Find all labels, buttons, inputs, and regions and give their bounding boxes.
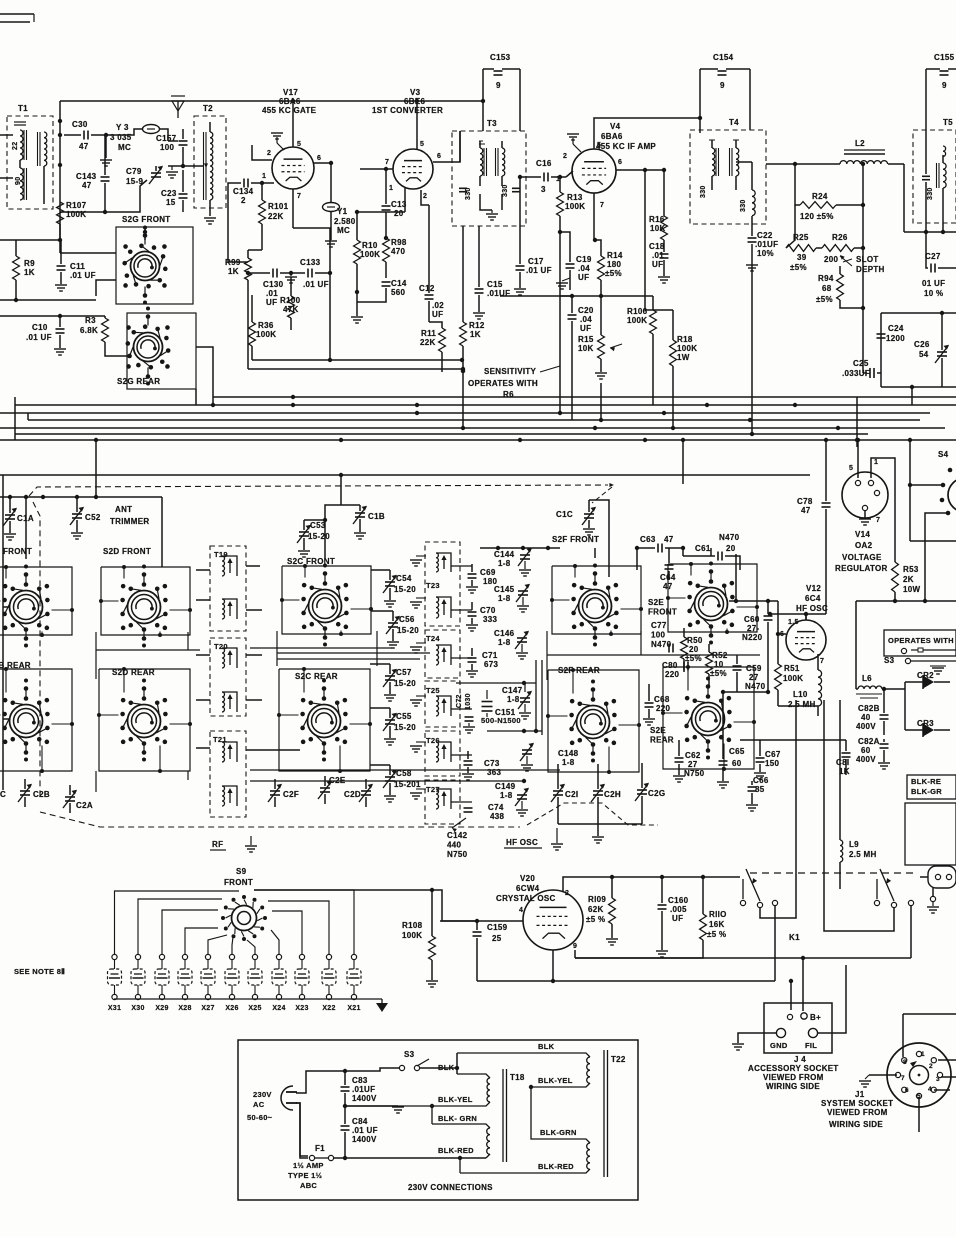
wire — [3, 606, 9, 608]
wire — [357, 288, 386, 302]
pin 6 — [618, 159, 622, 166]
wire — [356, 264, 358, 292]
label BLK-GRN T18 — [438, 1114, 477, 1123]
wire — [881, 313, 956, 387]
svg-text:7: 7 — [901, 1075, 905, 1082]
label C2C fragment — [0, 790, 6, 799]
wire — [774, 906, 776, 981]
wire — [304, 519, 325, 521]
wire — [471, 664, 473, 670]
wire — [843, 259, 852, 262]
capacitor C65 — [719, 747, 745, 768]
transformer T5 winding — [927, 146, 946, 200]
wire — [60, 272, 62, 284]
rotary switch S2D REAR wiring — [99, 669, 190, 771]
wire — [911, 387, 913, 405]
transformer T21 — [210, 731, 246, 817]
wire — [160, 129, 168, 141]
wire junction — [328, 358, 332, 362]
ground — [673, 776, 685, 782]
svg-text:15: 15 — [166, 198, 176, 207]
svg-text:ACCESSORY SOCKET: ACCESSORY SOCKET — [748, 1064, 839, 1073]
svg-text:R101: R101 — [268, 202, 289, 211]
wire — [500, 295, 601, 297]
rotary switch S2E REAR wiring — [663, 667, 754, 769]
svg-text:1200: 1200 — [886, 334, 905, 343]
ground — [298, 551, 310, 557]
wire — [0, 299, 96, 301]
wire — [483, 68, 494, 70]
wire junction — [430, 888, 434, 892]
svg-text:R53: R53 — [903, 565, 919, 574]
wire — [722, 691, 768, 693]
ground — [166, 166, 178, 178]
wire — [290, 318, 292, 330]
ground — [351, 317, 363, 323]
pin 5 — [297, 141, 301, 148]
wire — [883, 750, 885, 762]
switch S3 (power) — [399, 1050, 429, 1071]
wire — [710, 548, 712, 556]
wire junction — [776, 632, 780, 636]
svg-text:.005: .005 — [670, 905, 687, 914]
svg-text:S3: S3 — [884, 656, 895, 665]
wire junction — [104, 133, 108, 137]
wire — [560, 232, 570, 262]
svg-text:C13: C13 — [391, 200, 407, 209]
svg-text:455 KC IF AMP: 455 KC IF AMP — [596, 142, 656, 151]
wire — [440, 920, 477, 922]
wire — [96, 648, 392, 650]
wire junction — [58, 238, 62, 242]
wire — [722, 692, 724, 742]
svg-text:22: 22 — [12, 142, 19, 150]
svg-text:UF: UF — [266, 298, 277, 307]
wire — [751, 244, 753, 264]
svg-text:C12: C12 — [419, 284, 435, 293]
svg-text:C148: C148 — [558, 749, 579, 758]
rotary switch S2E REAR wiring 2 — [661, 665, 756, 771]
svg-text:180: 180 — [607, 260, 621, 269]
capacitor C155 — [934, 53, 955, 90]
svg-text:GND: GND — [770, 1041, 788, 1050]
ground — [643, 719, 655, 725]
svg-text:C2H: C2H — [604, 790, 621, 799]
wire — [404, 187, 406, 212]
rotary switch S2B REAR — [2, 679, 49, 762]
wire — [292, 189, 294, 228]
svg-text:500-N1500: 500-N1500 — [481, 716, 521, 725]
note sensitivity 3 — [503, 390, 514, 399]
wire — [168, 165, 196, 167]
wire junction — [521, 546, 525, 550]
wire — [883, 739, 885, 742]
wire — [184, 954, 186, 1003]
rotary switch S2B FRONT wiring — [0, 567, 72, 635]
wire — [767, 622, 769, 692]
svg-text:C159: C159 — [487, 923, 508, 932]
relay K1 link — [750, 872, 917, 874]
wire — [360, 168, 393, 170]
svg-text:C66: C66 — [753, 776, 769, 785]
transformer T27 windings — [436, 789, 451, 809]
wire — [277, 631, 377, 666]
svg-text:SYSTEM SOCKET: SYSTEM SOCKET — [821, 1099, 893, 1108]
wire — [59, 316, 61, 327]
svg-text:C58: C58 — [396, 769, 412, 778]
wire junction — [518, 175, 522, 179]
ground — [285, 273, 297, 283]
wire junction — [768, 612, 772, 616]
capacitor C77 — [651, 621, 672, 649]
svg-text:C2F: C2F — [283, 790, 299, 799]
svg-text:85: 85 — [755, 785, 765, 794]
wire junction — [662, 411, 666, 415]
wire — [597, 824, 599, 836]
tube V12 6C4 — [786, 584, 828, 660]
wire — [433, 131, 460, 162]
svg-text:C2E: C2E — [329, 776, 346, 785]
wire junction — [681, 438, 685, 442]
svg-text:40: 40 — [861, 713, 871, 722]
wire — [182, 200, 184, 212]
wire — [353, 954, 355, 1003]
svg-text:230V CONNECTIONS: 230V CONNECTIONS — [408, 1183, 493, 1192]
capacitor C22 — [748, 231, 779, 258]
capacitor C78 — [797, 497, 831, 515]
wire junction — [908, 483, 912, 487]
capacitor C159 — [473, 923, 508, 943]
svg-text:7: 7 — [600, 202, 604, 209]
wire — [254, 954, 256, 1003]
wire — [816, 247, 822, 249]
wire — [818, 965, 846, 1033]
wire — [254, 889, 432, 891]
tube V4 6BA6 — [572, 122, 656, 193]
svg-text:2: 2 — [565, 890, 569, 897]
svg-text:BLK-YEL: BLK-YEL — [438, 1095, 473, 1104]
pin labels V20 — [519, 890, 577, 950]
svg-text:100: 100 — [160, 143, 174, 152]
wire — [877, 372, 881, 374]
ground — [410, 696, 426, 706]
rotary switch S2D FRONT wiring 2 — [99, 565, 192, 637]
wire — [324, 794, 326, 804]
wire — [60, 240, 62, 264]
svg-text:8: 8 — [903, 1059, 907, 1066]
svg-text:6BA6: 6BA6 — [601, 132, 623, 141]
wire — [95, 440, 97, 497]
wire — [365, 797, 367, 807]
wire — [672, 310, 674, 340]
capacitor C157 — [156, 134, 188, 152]
wire — [569, 270, 571, 290]
svg-text:C146: C146 — [494, 629, 515, 638]
fuse F1 — [309, 1144, 333, 1161]
resistor R12 — [460, 321, 485, 346]
wire — [637, 547, 655, 549]
capacitor C73 — [464, 759, 502, 777]
resistor R101 — [259, 200, 289, 224]
svg-text:7: 7 — [820, 658, 824, 665]
wire — [138, 899, 222, 954]
pin 1 — [262, 173, 266, 180]
wire — [611, 877, 613, 898]
capacitor C16 — [536, 159, 552, 194]
wire — [250, 770, 560, 781]
wire junction — [662, 168, 666, 172]
ground — [325, 241, 337, 247]
wire — [751, 162, 753, 190]
svg-text:R98: R98 — [391, 238, 407, 247]
capacitor C68 — [645, 695, 671, 713]
ground — [376, 1003, 388, 1012]
svg-text:V3: V3 — [410, 88, 421, 97]
wire — [661, 911, 663, 950]
wire — [700, 68, 718, 70]
svg-text:470: 470 — [391, 247, 405, 256]
trimmer capacitor C57 — [383, 668, 416, 688]
wire — [770, 613, 826, 615]
svg-text:BLK-RED: BLK-RED — [438, 1146, 474, 1155]
capacitor T5 internal — [922, 176, 930, 179]
svg-text:47: 47 — [663, 582, 673, 591]
label 50-60 — [247, 1113, 273, 1122]
svg-text:3: 3 — [936, 1076, 940, 1083]
ground — [519, 704, 531, 719]
wire — [574, 950, 576, 958]
capacitor C13 — [382, 200, 407, 218]
bus wires — [0, 397, 956, 440]
wire — [24, 779, 26, 789]
wire — [456, 1053, 458, 1074]
wire — [60, 252, 116, 254]
svg-text:438: 438 — [490, 812, 504, 821]
wire junction — [260, 181, 264, 185]
wire — [476, 921, 478, 930]
wire — [661, 877, 663, 903]
svg-text:C154: C154 — [713, 53, 734, 62]
svg-text:15-20: 15-20 — [394, 679, 416, 688]
svg-text:S2G FRONT: S2G FRONT — [122, 215, 170, 224]
resistor R16 — [649, 215, 667, 240]
wire — [76, 497, 78, 512]
wire — [480, 547, 560, 549]
capacitor C62 — [675, 751, 705, 778]
rotary switch S2F REAR wiring — [548, 670, 639, 772]
transformer T18 — [345, 1069, 525, 1162]
svg-text:CR2: CR2 — [917, 671, 934, 680]
wire — [726, 68, 750, 70]
wire — [683, 659, 685, 672]
wire — [315, 272, 330, 274]
capacitor C130 — [263, 269, 284, 308]
wire junction — [343, 1104, 347, 1108]
trimmer capacitor C2A — [63, 790, 93, 810]
rotary switch S2B FRONT — [2, 565, 49, 648]
wire — [370, 663, 390, 665]
wire — [905, 681, 923, 683]
svg-text:FIL: FIL — [805, 1041, 817, 1050]
wire — [934, 681, 950, 683]
wire — [910, 484, 943, 486]
wire — [942, 155, 944, 163]
wire — [15, 240, 17, 256]
wire — [247, 280, 249, 369]
trimmer capacitor C2I — [551, 784, 578, 802]
wire — [778, 633, 786, 635]
wire — [938, 267, 956, 269]
wire — [471, 618, 473, 624]
capacitor C59 — [733, 664, 766, 691]
transformer T2 winding — [204, 132, 213, 200]
wire — [682, 548, 684, 556]
capacitor C10 — [26, 323, 65, 342]
wire — [552, 950, 554, 981]
svg-text:L10: L10 — [793, 690, 808, 699]
wire junction — [861, 203, 865, 207]
svg-text:S2C FRONT: S2C FRONT — [287, 557, 335, 566]
wire — [280, 272, 291, 274]
capacitor C82A — [856, 737, 889, 764]
wire — [329, 273, 331, 360]
wire — [370, 764, 390, 766]
svg-text:C82B: C82B — [858, 704, 880, 713]
svg-text:HF OSC: HF OSC — [506, 838, 538, 847]
capacitor C134 — [233, 179, 254, 206]
label BLK-RED T22 — [538, 1162, 574, 1171]
svg-text:R14: R14 — [607, 251, 623, 260]
svg-text:R9: R9 — [24, 259, 35, 268]
svg-text:C73: C73 — [484, 759, 500, 768]
wire junction — [343, 1156, 347, 1160]
svg-text:C59: C59 — [746, 664, 762, 673]
resistor R25 — [786, 233, 816, 272]
transformer T19 — [210, 546, 246, 631]
svg-text:100K: 100K — [677, 344, 697, 353]
wire — [941, 358, 943, 387]
wire — [482, 69, 484, 131]
svg-text:220: 220 — [665, 670, 679, 679]
capacitor C17 — [516, 257, 552, 275]
coil L9 — [840, 840, 877, 862]
svg-text:673: 673 — [484, 660, 498, 669]
transformer T22 — [457, 1050, 626, 1177]
svg-text:C143: C143 — [76, 172, 97, 181]
wire — [182, 147, 184, 166]
svg-text:V12: V12 — [806, 584, 821, 593]
transformer T5 — [913, 118, 956, 223]
label S2B REAR — [0, 661, 31, 670]
wire — [247, 940, 255, 954]
svg-text:C84: C84 — [352, 1117, 368, 1126]
wire junction — [824, 438, 828, 442]
capacitor C84 — [341, 1117, 378, 1144]
svg-text:L6: L6 — [862, 674, 872, 683]
diode CR3 — [917, 719, 934, 737]
trimmer capacitor C1C — [556, 507, 596, 525]
wire — [612, 876, 740, 878]
wire — [389, 682, 391, 694]
svg-text:T1: T1 — [18, 104, 28, 113]
label fuse 3 — [300, 1181, 317, 1190]
svg-text:100K: 100K — [402, 931, 422, 940]
wire junction — [384, 236, 388, 240]
wire junction — [660, 875, 664, 879]
wire — [389, 726, 391, 738]
ground — [859, 1075, 871, 1087]
pin 2 — [423, 193, 427, 200]
connector pin — [930, 896, 935, 901]
ground — [392, 1107, 404, 1113]
svg-text:BLK: BLK — [538, 1042, 555, 1051]
wire junction — [475, 919, 479, 923]
svg-text:C68: C68 — [654, 695, 670, 704]
svg-text:BLK-GRN: BLK-GRN — [540, 1128, 577, 1137]
ground — [410, 742, 426, 752]
wire — [456, 681, 536, 685]
svg-text:BLK-GR: BLK-GR — [911, 787, 942, 796]
wire — [600, 383, 602, 420]
wire — [678, 740, 680, 756]
wire — [420, 1067, 457, 1069]
svg-text:UF: UF — [580, 324, 591, 333]
rotary switch S2D REAR — [120, 679, 167, 762]
svg-text:22K: 22K — [268, 212, 284, 221]
wire — [431, 890, 433, 936]
transformer T25 windings — [436, 696, 451, 716]
transformer T1 windings — [12, 122, 47, 200]
svg-text:2: 2 — [241, 196, 246, 205]
svg-text:S2G REAR: S2G REAR — [117, 377, 160, 386]
wire — [325, 505, 341, 558]
svg-text:400V: 400V — [856, 755, 876, 764]
wire — [575, 940, 703, 958]
label HF OSC — [504, 838, 542, 848]
transformer T4 — [690, 118, 766, 224]
svg-text:MC: MC — [118, 143, 131, 152]
capacitor C60 — [742, 615, 773, 642]
wire junction — [461, 369, 465, 373]
svg-text:T20: T20 — [214, 642, 228, 651]
svg-text:330: 330 — [927, 187, 934, 200]
ground — [514, 289, 526, 295]
svg-text:27: 27 — [688, 760, 698, 769]
svg-text:C57: C57 — [396, 668, 412, 677]
relay K1 contacts right — [874, 869, 913, 908]
rotary switch S2C FRONT wiring — [282, 566, 371, 634]
wire — [856, 600, 956, 602]
transformer T1 — [7, 104, 53, 209]
wire — [207, 954, 209, 1003]
svg-text:47: 47 — [79, 142, 89, 151]
ground — [466, 671, 478, 677]
wire — [520, 176, 526, 178]
wire — [740, 739, 846, 741]
svg-text:1: 1 — [874, 459, 878, 466]
wire — [104, 135, 106, 175]
svg-text:TYPE 1½: TYPE 1½ — [288, 1171, 322, 1180]
wire junction — [291, 395, 295, 399]
wire — [487, 729, 542, 733]
capacitor C69 — [468, 568, 498, 586]
wire junction — [698, 116, 702, 120]
wire junction — [415, 403, 419, 407]
wire — [790, 981, 792, 1010]
trimmer capacitor C26 — [914, 340, 949, 363]
svg-text:.01UF: .01UF — [352, 1085, 375, 1094]
svg-text:20: 20 — [689, 645, 699, 654]
